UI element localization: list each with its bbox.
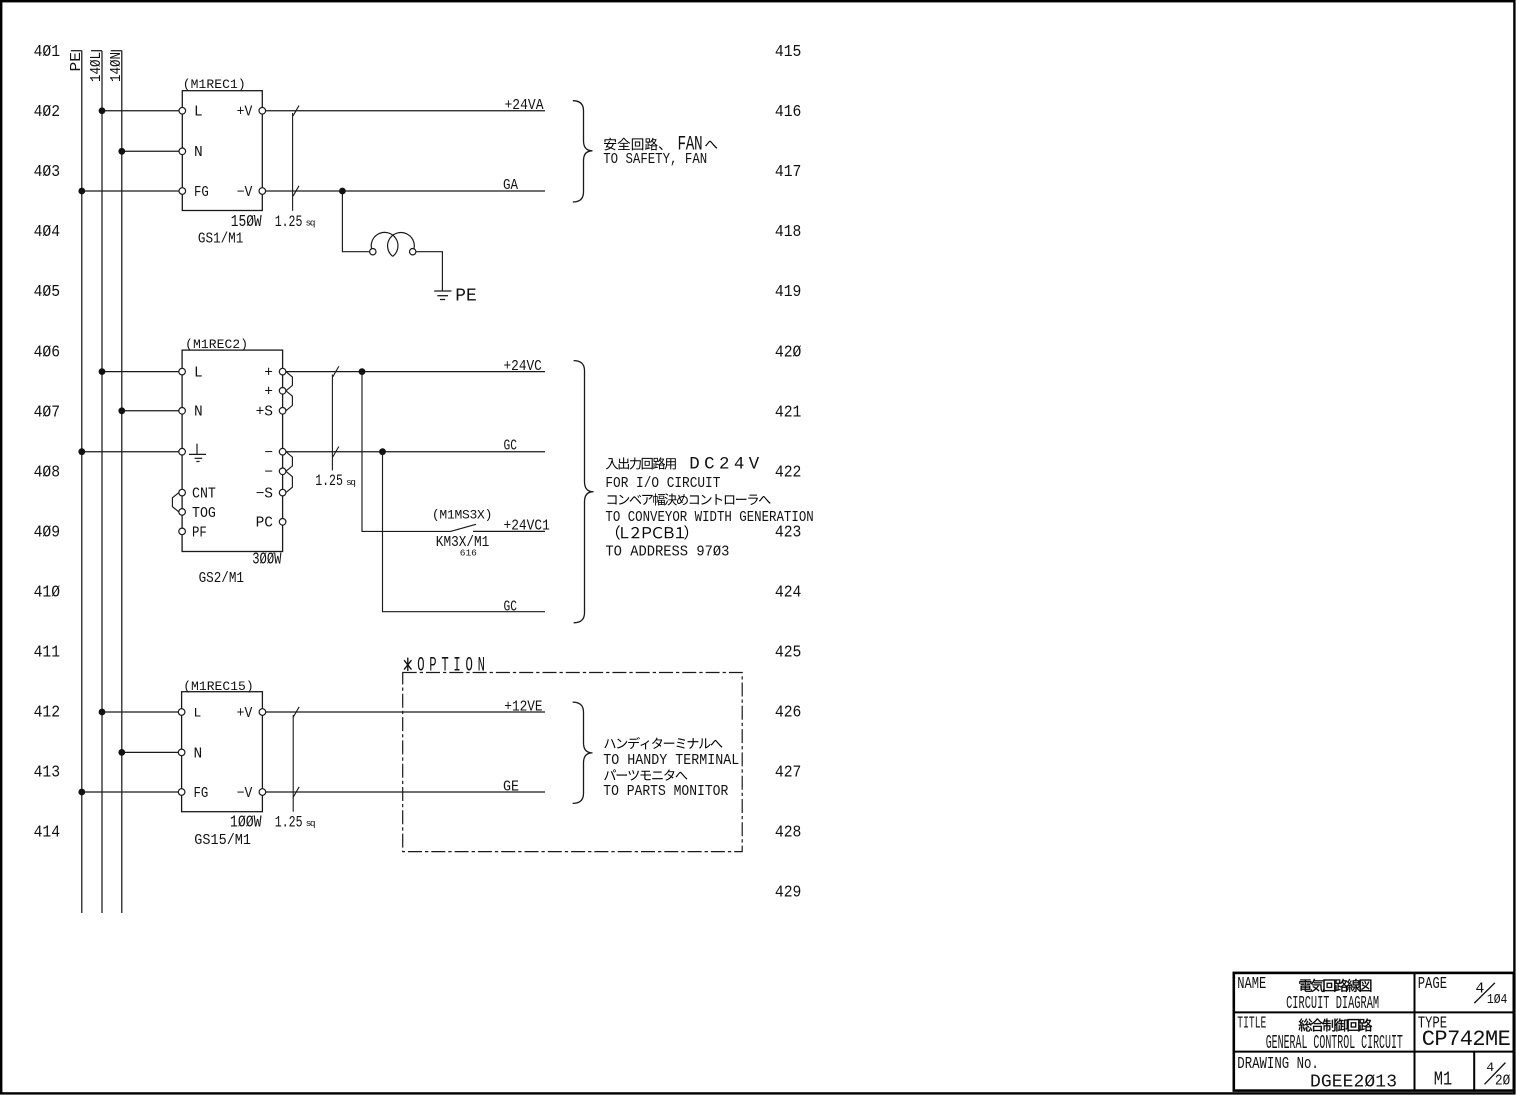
title block TYPE cell <box>1418 1015 1511 1052</box>
annotation: conveyor width JP <box>607 495 616 504</box>
svg-text:3ØØW: 3ØØW <box>252 551 282 570</box>
terminal L (REC15) <box>178 706 201 721</box>
terminal TOG <box>179 506 216 522</box>
junction node 140L (REC2) <box>99 368 106 375</box>
svg-text:415: 415 <box>775 43 802 62</box>
junction node 140N (REC2) <box>118 407 125 414</box>
terminal + (2) <box>264 385 286 401</box>
power supply GS15/M1 (M1REC15) box <box>182 692 263 812</box>
terminal FG (REC15) <box>178 786 208 802</box>
terminal -V <box>237 185 266 201</box>
annotation: I/O circuit JP <box>606 456 760 475</box>
terminal GND (REC2) <box>179 444 206 462</box>
wire PE to FG (REC15) <box>82 791 179 793</box>
terminal +V (REC15) <box>237 706 266 722</box>
svg-text:4Ø9: 4Ø9 <box>34 523 61 542</box>
terminal L <box>179 105 203 121</box>
svg-text:+12VE: +12VE <box>504 698 542 715</box>
svg-text:PAGE: PAGE <box>1418 975 1447 994</box>
wire +24VC1 <box>473 530 545 532</box>
svg-text:PE: PE <box>455 287 477 307</box>
svg-text:DGEE2Ø13: DGEE2Ø13 <box>1310 1072 1397 1092</box>
bus PE vertical line <box>71 51 82 913</box>
title block NAME cell <box>1237 975 1379 1014</box>
svg-text:418: 418 <box>775 223 802 242</box>
svg-text:428: 428 <box>775 824 802 843</box>
svg-text:+24VA: +24VA <box>505 97 544 114</box>
terminal +S <box>256 405 286 421</box>
svg-text:GENERAL CONTROL CIRCUIT: GENERAL CONTROL CIRCUIT <box>1266 1032 1403 1054</box>
junction node on 140L <box>99 107 106 114</box>
terminal FG <box>179 185 209 201</box>
junction node PE (REC15) <box>78 789 85 796</box>
wire 140N to N <box>122 150 179 152</box>
svg-text:sq: sq <box>306 218 318 229</box>
jumper + to + <box>286 372 293 391</box>
wire GE <box>266 791 545 793</box>
svg-text:14ØN: 14ØN <box>109 52 125 82</box>
brace to handy terminal <box>573 702 593 803</box>
jumper CNT-TOG <box>172 493 179 512</box>
wire GA branch down <box>342 191 369 252</box>
svg-text:−V: −V <box>237 185 253 201</box>
annotation: safety fan JP <box>604 134 717 157</box>
svg-text:FOR I/O CIRCUIT: FOR I/O CIRCUIT <box>605 476 720 492</box>
label 1.25sq <box>275 213 318 231</box>
wire 140L to L (REC15) <box>102 711 178 713</box>
svg-text:FG: FG <box>194 786 209 802</box>
wire +24VC branch down to switch <box>362 372 451 532</box>
wire +24VC <box>286 371 545 373</box>
svg-text:413: 413 <box>34 764 61 783</box>
svg-text:PC: PC <box>256 516 274 532</box>
label 1.25sq (REC15) <box>275 814 318 832</box>
svg-text:1.25: 1.25 <box>275 213 303 231</box>
wire PE to GND (REC2) <box>82 451 179 453</box>
svg-text:TO PARTS MONITOR: TO PARTS MONITOR <box>603 784 728 800</box>
wire GC branch to lower GC <box>383 452 546 612</box>
ground PE symbol <box>434 291 451 300</box>
svg-text:GA: GA <box>503 177 518 194</box>
terminal -S <box>256 487 286 503</box>
svg-text:PE: PE <box>69 52 85 72</box>
svg-text:+V: +V <box>237 706 253 722</box>
terminal +V <box>237 105 266 121</box>
option dashed box <box>403 673 743 852</box>
svg-text:N: N <box>194 405 203 421</box>
svg-text:M1: M1 <box>1434 1068 1452 1090</box>
junction node 140N (REC15) <box>118 749 125 756</box>
junction node PE (REC2) <box>78 448 85 455</box>
svg-text:TO SAFETY, FAN: TO SAFETY, FAN <box>603 152 707 168</box>
svg-text:CP742ME: CP742ME <box>1422 1027 1511 1052</box>
svg-text:416: 416 <box>775 103 802 122</box>
svg-text:4Ø7: 4Ø7 <box>34 403 61 422</box>
svg-text:(M1REC1): (M1REC1) <box>183 77 246 92</box>
wire 140N to N (REC2) <box>122 410 179 412</box>
svg-text:4Ø4: 4Ø4 <box>34 223 61 242</box>
svg-text:TO HANDY TERMINAL: TO HANDY TERMINAL <box>603 753 739 769</box>
svg-text:422: 422 <box>775 463 802 482</box>
jumper - to - <box>286 452 293 472</box>
right row numbers 415-429 <box>775 43 802 903</box>
svg-text:L: L <box>194 706 202 721</box>
svg-text:+S: +S <box>256 405 273 421</box>
svg-text:411: 411 <box>34 644 61 663</box>
svg-text:(M1MS3X): (M1MS3X) <box>432 508 493 523</box>
terminal PC <box>256 516 286 532</box>
svg-text:4Ø6: 4Ø6 <box>34 343 61 362</box>
svg-text:1.25: 1.25 <box>315 472 343 490</box>
svg-text:TO CONVEYOR WIDTH GENERATION: TO CONVEYOR WIDTH GENERATION <box>605 510 813 526</box>
power supply GS1/M1 (M1REC1) box <box>182 91 262 211</box>
wire filter to ground <box>416 252 443 291</box>
junction node GC branch <box>379 448 386 455</box>
wire PE to FG <box>82 190 179 192</box>
svg-text:TO ADDRESS 97Ø3: TO ADDRESS 97Ø3 <box>605 545 729 561</box>
svg-text:GE: GE <box>503 779 519 796</box>
switch KM3X/M1 (M1MS3X) blade <box>451 524 477 531</box>
svg-text:2Ø: 2Ø <box>1495 1073 1510 1090</box>
terminal L (REC2) <box>179 366 203 382</box>
svg-text:L: L <box>194 105 203 121</box>
svg-text:421: 421 <box>775 403 802 422</box>
svg-text:4Ø3: 4Ø3 <box>34 163 61 182</box>
wire GC <box>286 451 545 453</box>
wire 140L to L (REC2) <box>102 371 179 373</box>
wire GA <box>266 190 545 192</box>
title block DRAWING cell <box>1237 1055 1397 1092</box>
junction node on PE <box>78 188 85 195</box>
svg-text:PF: PF <box>192 525 207 541</box>
cable marker 1.25sq (REC15) <box>293 707 299 812</box>
terminal N (REC15) <box>178 746 202 762</box>
cable marker 1.25sq <box>293 106 299 211</box>
title block frame <box>1234 973 1514 1091</box>
annotation: parts monitor JP <box>604 769 616 780</box>
svg-text:TOG: TOG <box>192 506 216 522</box>
svg-text:427: 427 <box>775 764 802 783</box>
svg-text:42Ø: 42Ø <box>775 343 802 362</box>
wire +24VA <box>266 110 545 112</box>
junction node on GA <box>339 188 346 195</box>
junction node 140L (REC15) <box>99 709 106 716</box>
svg-text:+24VC: +24VC <box>504 358 542 375</box>
jumper - to -S <box>286 471 293 492</box>
svg-text:+V: +V <box>237 105 253 121</box>
svg-text:616: 616 <box>460 548 477 559</box>
svg-text:429: 429 <box>775 884 802 903</box>
wire 140L to L <box>102 110 179 112</box>
svg-text:15ØW: 15ØW <box>231 213 263 232</box>
terminal CNT <box>179 487 216 503</box>
svg-text:sq: sq <box>306 818 318 829</box>
svg-text:FG: FG <box>194 185 209 201</box>
svg-text:4Ø2: 4Ø2 <box>34 103 61 122</box>
svg-text:+: + <box>264 385 273 401</box>
terminal PF <box>179 525 207 541</box>
terminal + (1) <box>264 366 286 382</box>
label *OPTION <box>404 653 485 676</box>
svg-text:424: 424 <box>775 583 802 602</box>
bus 140L vertical line <box>91 51 102 913</box>
svg-text:−: − <box>264 465 273 481</box>
terminal - (1) <box>264 446 286 462</box>
svg-text:sq: sq <box>346 477 358 488</box>
terminal N (REC2) <box>179 405 203 421</box>
svg-text:+24VC1: +24VC1 <box>504 518 550 535</box>
svg-text:CIRCUIT DIAGRAM: CIRCUIT DIAGRAM <box>1286 994 1379 1014</box>
svg-text:423: 423 <box>775 523 802 542</box>
annotation: (L2PCB1) <box>616 525 620 539</box>
jumper + to +S <box>286 391 293 411</box>
svg-text:+: + <box>264 366 273 382</box>
cable marker 1.25sq (REC2) <box>332 366 338 470</box>
svg-text:DC24V: DC24V <box>689 456 760 475</box>
terminal -V (REC15) <box>237 786 266 802</box>
svg-text:1.25: 1.25 <box>275 814 303 832</box>
power supply GS2/M1 (M1REC2) box <box>182 350 283 551</box>
wire 140N to N (REC15) <box>122 751 179 753</box>
title block page fraction 4/20 <box>1485 1060 1511 1090</box>
bus 140N vertical line <box>111 51 122 913</box>
brace to I/O circuit <box>574 361 594 623</box>
svg-text:(M1REC2): (M1REC2) <box>185 337 248 352</box>
ferrite ring filter T1 <box>370 232 416 256</box>
left row numbers 401-414 <box>34 43 61 843</box>
svg-text:412: 412 <box>34 704 61 723</box>
terminal N <box>179 145 203 161</box>
svg-text:4Ø5: 4Ø5 <box>34 283 61 302</box>
svg-text:−: − <box>264 446 273 462</box>
svg-text:GS15/M1: GS15/M1 <box>194 832 251 849</box>
svg-text:L: L <box>194 366 203 382</box>
svg-text:1Ø4: 1Ø4 <box>1487 993 1508 1008</box>
svg-text:DRAWING No.: DRAWING No. <box>1237 1055 1319 1074</box>
svg-text:425: 425 <box>775 644 802 663</box>
svg-text:CNT: CNT <box>192 487 216 503</box>
svg-text:426: 426 <box>775 704 802 723</box>
annotation: handy terminal JP <box>604 739 615 748</box>
svg-text:4Ø1: 4Ø1 <box>34 43 61 62</box>
svg-text:41Ø: 41Ø <box>34 583 61 602</box>
svg-text:4Ø8: 4Ø8 <box>34 463 61 482</box>
svg-text:NAME: NAME <box>1237 975 1266 994</box>
svg-text:N: N <box>194 145 203 161</box>
svg-text:GC: GC <box>504 599 518 616</box>
svg-text:−V: −V <box>237 786 253 802</box>
svg-text:1ØØW: 1ØØW <box>230 814 262 833</box>
svg-text:N: N <box>194 746 203 762</box>
svg-text:GS2/M1: GS2/M1 <box>199 570 244 587</box>
junction node on 140N <box>118 148 125 155</box>
svg-text:−S: −S <box>256 487 273 503</box>
terminal - (2) <box>264 465 286 481</box>
wire +12VE <box>266 711 545 713</box>
svg-text:GS1/M1: GS1/M1 <box>198 231 243 248</box>
svg-text:417: 417 <box>775 163 802 182</box>
junction node +24VC branch <box>359 368 366 375</box>
svg-text:(M1REC15): (M1REC15) <box>183 679 254 694</box>
svg-text:4: 4 <box>1486 1060 1494 1075</box>
svg-text:419: 419 <box>775 283 802 302</box>
label 1.25sq (REC2) <box>315 472 358 490</box>
svg-text:414: 414 <box>34 824 61 843</box>
title block TITLE cell <box>1237 1015 1403 1055</box>
svg-text:GC: GC <box>504 438 518 455</box>
title block PAGE cell <box>1418 975 1508 1008</box>
brace to safety/fan <box>573 101 593 202</box>
svg-text:TITLE: TITLE <box>1237 1015 1266 1034</box>
svg-text:14ØL: 14ØL <box>89 52 105 82</box>
